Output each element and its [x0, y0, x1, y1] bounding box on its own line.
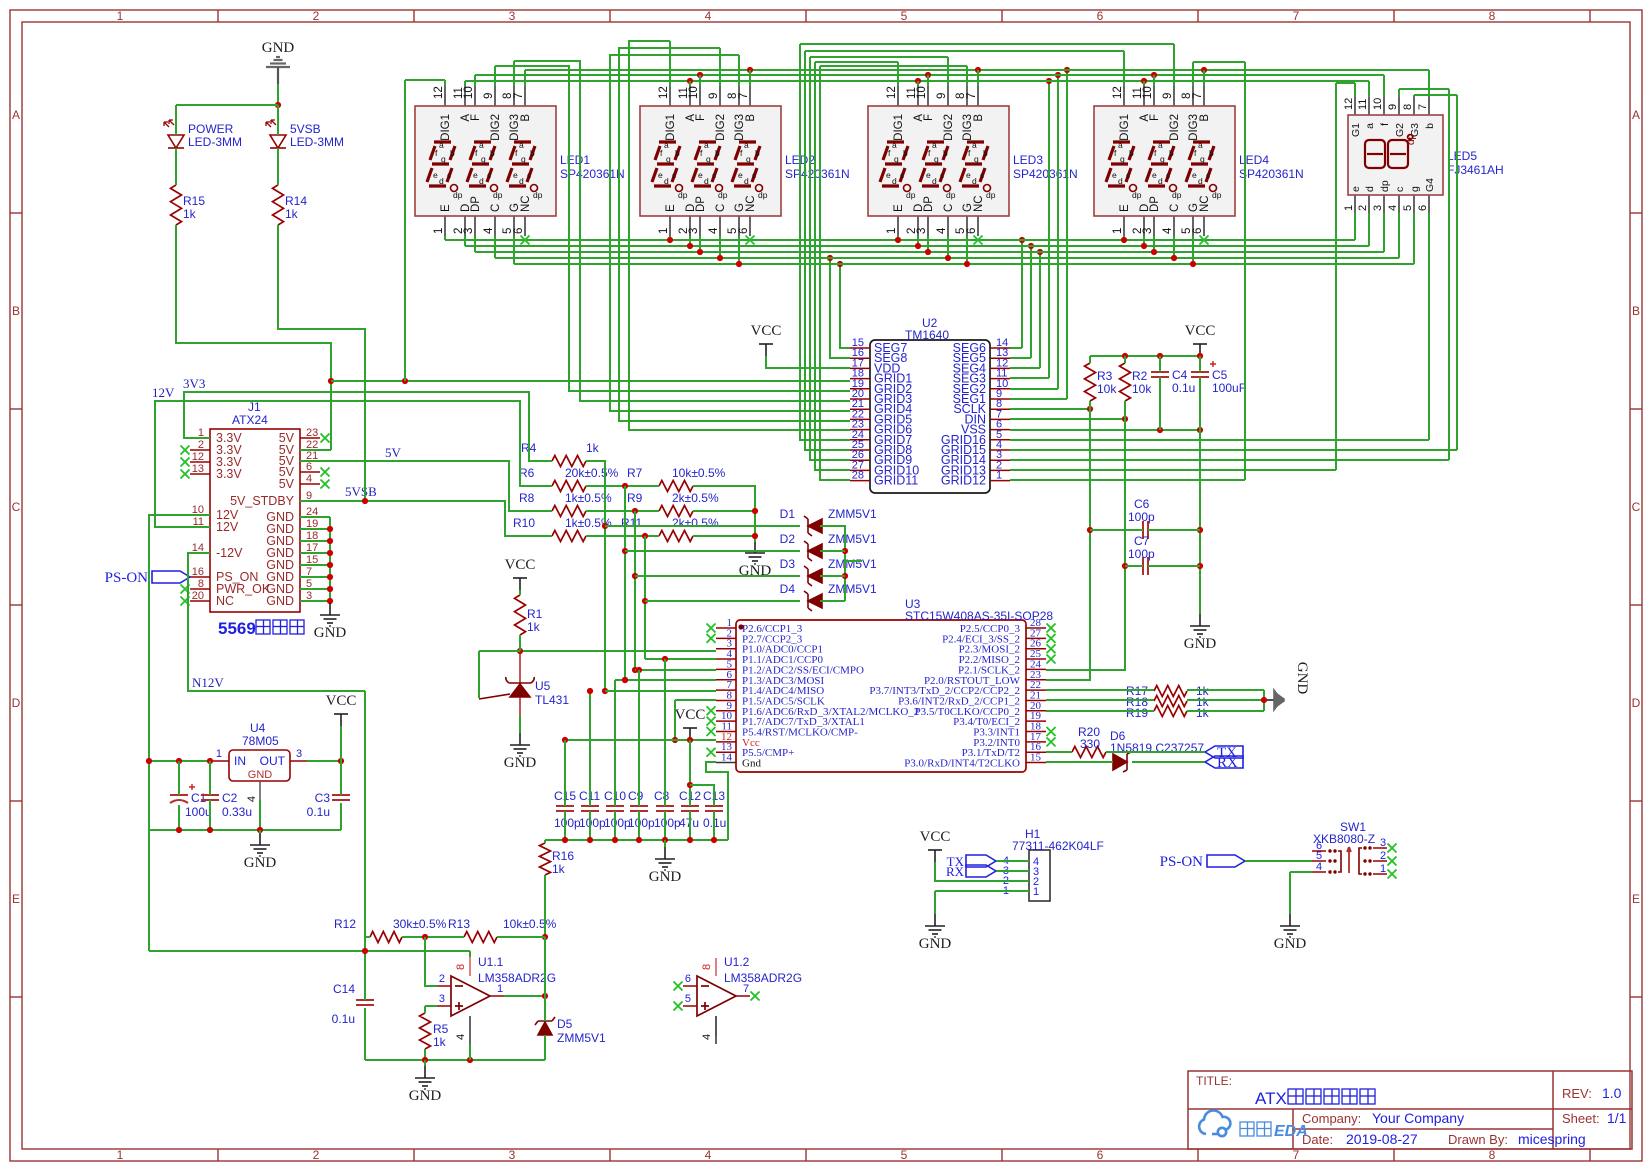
wire P3.6 to R19 — [1046, 710, 1154, 712]
ground below U5 — [510, 733, 530, 756]
junction — [622, 677, 628, 683]
junction — [1197, 527, 1203, 533]
svg-text:9: 9 — [1387, 104, 1399, 110]
svg-text:B: B — [973, 114, 985, 122]
svg-text:4: 4 — [705, 9, 712, 23]
capacitor C12 47u — [681, 806, 699, 811]
wire LED5 G4 drop — [1428, 213, 1430, 440]
wire D3 cathode — [820, 575, 845, 577]
junction — [1055, 72, 1061, 78]
wire display pin drop — [689, 236, 691, 246]
svg-text:F: F — [923, 114, 935, 121]
wire GRID lane to LED4 pin9 — [800, 43, 1174, 45]
J1 pin 11 12V — [190, 526, 210, 528]
wire 5VSB LED to R14 — [277, 148, 279, 185]
svg-text:100p: 100p — [628, 816, 655, 830]
resistor R12 30k — [370, 932, 402, 943]
svg-text:b: b — [1424, 123, 1436, 129]
svg-text:P3.0/RxD/INT4/T2CLKO: P3.0/RxD/INT4/T2CLKO — [904, 758, 1020, 770]
svg-text:R15: R15 — [183, 194, 205, 208]
svg-text:VCC: VCC — [1185, 323, 1216, 339]
U3 no-connect — [1047, 644, 1056, 653]
junction — [632, 667, 638, 673]
wire LED anode rail — [176, 104, 278, 106]
U3 no-connect — [707, 706, 716, 715]
U2 pin 23 GRID6 — [850, 429, 870, 431]
svg-text:1: 1 — [1380, 863, 1386, 875]
junction — [1028, 243, 1034, 249]
wire VSS row — [1010, 429, 1200, 431]
junction — [328, 378, 334, 384]
junction — [642, 598, 648, 604]
svg-text:E: E — [1119, 204, 1131, 212]
svg-text:1: 1 — [216, 748, 222, 760]
svg-text:2: 2 — [1357, 205, 1369, 211]
wire SCLK row — [1010, 408, 1090, 410]
svg-text:VCC: VCC — [751, 323, 782, 339]
U3 pin 13 P5.5/CMP+ — [716, 751, 736, 753]
display LED1 SP420361N — [415, 86, 556, 236]
svg-text:6: 6 — [1417, 205, 1429, 211]
wire C5 bottom — [1199, 377, 1201, 430]
wire display pin drop — [464, 236, 466, 246]
svg-text:TL431: TL431 — [535, 693, 569, 707]
wire LED5 pin8 riser — [1413, 95, 1415, 97]
svg-text:GND: GND — [649, 869, 682, 885]
display LED4 SP420361N — [1094, 86, 1235, 236]
wire LED4 riser — [1143, 81, 1145, 86]
svg-text:1/1: 1/1 — [1607, 1110, 1627, 1126]
wire to POWER LED — [175, 105, 177, 135]
capacitor C2 0.33u — [201, 795, 219, 800]
SW1 pin 3 — [1373, 847, 1387, 849]
svg-text:NC: NC — [520, 195, 532, 212]
svg-text:g: g — [1120, 154, 1125, 164]
junction — [687, 782, 693, 788]
junction — [687, 78, 693, 84]
svg-text:TITLE:: TITLE: — [1196, 1074, 1232, 1088]
svg-text:5V: 5V — [279, 477, 295, 491]
junction — [697, 249, 703, 255]
U2 pin 9 SEG1 — [990, 398, 1010, 400]
svg-text:1: 1 — [1033, 886, 1039, 898]
junction — [207, 758, 213, 764]
wire P3.1 to R20 — [1046, 751, 1072, 753]
wire LED2 riser — [689, 81, 691, 86]
svg-text:a: a — [664, 140, 669, 150]
svg-text:dp: dp — [1172, 190, 1182, 200]
junction — [1121, 237, 1127, 243]
IC U4 78M05 — [229, 750, 290, 781]
svg-text:b: b — [715, 148, 720, 158]
svg-text:2: 2 — [439, 973, 445, 985]
svg-text:G4: G4 — [1424, 178, 1436, 192]
U3 pin 17 P3.2/INT0 — [1026, 741, 1046, 743]
U4 pin 4 GND — [259, 781, 261, 800]
wire VCC rail at R3 R2 — [1090, 355, 1200, 357]
net flag TX at H1 — [966, 855, 996, 867]
svg-text:8: 8 — [1489, 9, 1496, 23]
wire LED4 pin8 riser — [1192, 62, 1194, 86]
wire segment A lane — [465, 80, 1369, 82]
wire D4 cathode — [820, 600, 845, 602]
wire C14 bottom — [364, 1008, 366, 1060]
wire C1 top — [178, 761, 180, 795]
svg-text:12V: 12V — [152, 385, 175, 400]
wire GRID1 row — [331, 380, 850, 382]
wire 3V3 net to R4 — [184, 392, 552, 461]
no-connect — [751, 992, 760, 1001]
wire TX to H1 pin4 — [996, 860, 1029, 862]
svg-text:d: d — [1364, 186, 1376, 192]
U3 pin 4 P1.1/ADC1/CCP0 — [716, 658, 736, 660]
resistor R8 1k — [552, 506, 586, 517]
resistor R19 1k — [1154, 706, 1187, 717]
junction — [622, 677, 628, 683]
junction — [275, 102, 281, 108]
capacitor C14 0.1u — [356, 1000, 374, 1005]
wire non-inverting input — [425, 1005, 437, 1007]
wire SEG3 up — [1048, 81, 1050, 378]
svg-text:GND: GND — [314, 625, 347, 641]
U3 no-connect — [707, 727, 716, 736]
U3 pin 9 P1.6/ADC6/RxD_3/XTAL2/MCLKO_2 — [716, 710, 736, 712]
svg-text:LED5: LED5 — [1447, 149, 1477, 163]
resistor R6 20k — [552, 481, 586, 492]
svg-text:ZMM5V1: ZMM5V1 — [557, 1031, 606, 1045]
svg-text:dp: dp — [678, 190, 688, 200]
wire N12V net — [188, 553, 365, 691]
U2 pin 4 GRID15 — [990, 449, 1010, 451]
svg-text:D3: D3 — [780, 557, 796, 571]
resistor R11 2k — [659, 531, 693, 542]
wire C15 top — [564, 740, 566, 806]
wire op-amp output — [504, 995, 545, 997]
svg-text:VCC: VCC — [920, 829, 951, 845]
wire R2 top — [1124, 356, 1126, 363]
wire D6 to RX — [1132, 761, 1205, 763]
U2 pin 25 GRID8 — [850, 449, 870, 451]
wire GRID3 — [514, 61, 850, 401]
VCC near C5 — [1193, 344, 1207, 356]
U3 pin 25 P2.2/MISO_2 — [1026, 658, 1046, 660]
svg-text:4: 4 — [1316, 861, 1322, 873]
junction — [842, 573, 848, 579]
wire display pin drop — [494, 236, 496, 258]
U3 pin 22 P3.7/INT3/TxD_2/CCP2/CCP2_2 — [1026, 689, 1046, 691]
U3 pin 26 P2.3/MOSI_2 — [1026, 648, 1046, 650]
junction — [1122, 353, 1128, 359]
wire P1.3 row — [615, 679, 716, 681]
wire to D5 — [544, 996, 546, 1021]
J1 no-connect — [181, 597, 190, 606]
svg-text:C7: C7 — [1134, 534, 1150, 548]
junction — [1019, 237, 1025, 243]
svg-text:VCC: VCC — [326, 693, 357, 709]
wire LED2 pin8 riser — [738, 55, 740, 86]
wire SEG8 — [830, 258, 850, 358]
svg-text:U1.2: U1.2 — [724, 955, 750, 969]
wire LED1 DIG1 drop — [404, 80, 406, 381]
J1 pin 18 GND — [300, 540, 320, 542]
svg-text:OUT: OUT — [260, 754, 286, 768]
junction — [1046, 78, 1052, 84]
svg-text:10k: 10k — [1097, 382, 1117, 396]
svg-text:2: 2 — [313, 1148, 320, 1162]
junction — [362, 498, 368, 504]
no-connect — [674, 1002, 683, 1011]
resistor R17 1k — [1154, 686, 1187, 697]
junction — [207, 827, 213, 833]
U2 pin 12 SEG4 — [990, 367, 1010, 369]
junction — [1122, 416, 1128, 422]
wire C7 right — [1148, 565, 1200, 567]
zener diode D3 ZMM5V1 — [804, 566, 822, 586]
net flag PS-ON — [152, 571, 190, 583]
svg-text:dp: dp — [986, 190, 996, 200]
junction — [915, 243, 921, 249]
U2 pin 13 SEG5 — [990, 357, 1010, 359]
junction — [687, 243, 693, 249]
svg-text:b: b — [675, 148, 680, 158]
svg-text:5V: 5V — [385, 445, 402, 460]
svg-text:5: 5 — [685, 993, 691, 1005]
svg-text:12: 12 — [1343, 98, 1355, 110]
display LED3 SP420361N — [868, 86, 1009, 236]
wire stub — [845, 560, 862, 562]
J1 pin 5 GND — [300, 588, 320, 590]
display pin6 no-connect — [746, 236, 755, 245]
U3 pin 23 P2.0/RSTOUT_LOW — [1026, 679, 1046, 681]
LED POWER LED-3MM — [164, 120, 184, 148]
wire to pin8 — [469, 951, 471, 957]
junction — [362, 948, 368, 954]
svg-text:g: g — [666, 154, 671, 164]
wire R17-19 common — [1263, 690, 1265, 711]
svg-text:5: 5 — [901, 9, 908, 23]
wire TL431 ref loop — [478, 651, 480, 698]
svg-text:78M05: 78M05 — [242, 734, 279, 748]
junction — [562, 837, 568, 843]
svg-text:LED1: LED1 — [560, 153, 590, 167]
wire U4 GND pin — [259, 800, 261, 830]
H1 pin 2 — [1012, 880, 1029, 882]
junction — [687, 737, 693, 743]
svg-text:GND: GND — [1274, 936, 1307, 952]
wire GRID7 — [800, 44, 850, 440]
wire N12V down to R12 C14 — [364, 691, 366, 1000]
zener diode D1 ZMM5V1 — [804, 516, 822, 536]
SW1 pin 2 — [1373, 860, 1387, 862]
svg-text:d: d — [932, 176, 937, 186]
wire J1 GND pin — [300, 516, 330, 518]
wire DIN to U3 P2.2 — [1046, 419, 1125, 670]
wire P3.7 to R18 — [1046, 699, 1154, 701]
svg-text:B: B — [1199, 114, 1211, 122]
wire J1 GND pin — [300, 540, 330, 542]
svg-text:1k: 1k — [183, 207, 197, 221]
svg-text:e: e — [513, 170, 518, 180]
U3 pin 24 P2.1/SCLK_2 — [1026, 668, 1046, 670]
junction — [925, 72, 931, 78]
wire SEG3 stub — [1010, 377, 1049, 379]
wire LED5 pin4 drop — [1398, 213, 1400, 258]
LED 5VSB LED-3MM — [266, 120, 286, 148]
svg-text:e: e — [658, 170, 663, 180]
junction — [842, 548, 848, 554]
svg-text:ZMM5V1: ZMM5V1 — [828, 532, 877, 546]
wire LED1 pin10 riser — [474, 75, 476, 86]
wire display pin drop — [474, 236, 476, 252]
wire GRID14 riser — [1448, 89, 1450, 460]
U2 pin 15 SEG7 — [850, 347, 870, 349]
svg-text:b: b — [943, 148, 948, 158]
svg-text:1k: 1k — [433, 1035, 447, 1049]
svg-text:d: d — [704, 176, 709, 186]
svg-text:2: 2 — [313, 9, 320, 23]
U3 pin 28 P2.5/CCP0_3 — [1026, 627, 1046, 629]
wire display pin drop — [738, 236, 740, 264]
J1 pin 20 NC — [190, 600, 210, 602]
wire rail to R16 — [544, 840, 546, 843]
wire C8 top — [664, 659, 666, 806]
wire P1.5 row — [675, 699, 716, 701]
J1 pin 13 3.3V — [190, 473, 210, 475]
wire P1.4 row — [605, 690, 716, 692]
wire display pin drop — [1173, 236, 1175, 258]
svg-text:d: d — [1158, 176, 1163, 186]
wire display pin drop — [947, 236, 949, 258]
wire D2 cathode — [820, 550, 845, 552]
wire U4 ground rail — [149, 829, 341, 831]
capacitor C1 100u — [170, 795, 188, 803]
svg-text:1k: 1k — [527, 620, 541, 634]
wire LED5 pin11 riser — [1368, 81, 1370, 97]
wire LED2 pin12 riser — [669, 41, 671, 86]
wire P1.1 row — [645, 658, 716, 660]
svg-text:E: E — [893, 204, 905, 212]
wire R5 top — [424, 1006, 426, 1013]
svg-text:VCC: VCC — [675, 707, 706, 723]
wire D1-D4 cathode bus — [820, 526, 845, 601]
wire display pin drop — [444, 236, 446, 240]
J1 pin 12 3.3V — [190, 461, 210, 463]
U3 pin 18 P3.3/INT1 — [1026, 731, 1046, 733]
wire LED3 riser — [927, 75, 929, 86]
wire P3.0 to D6 — [1046, 761, 1113, 763]
svg-text:3: 3 — [296, 748, 302, 760]
U3 pin 7 P1.4/ADC4/MISO — [716, 689, 736, 691]
wire lane to LED4 pin8 — [1193, 61, 1245, 63]
wire LED3 riser — [917, 81, 919, 86]
junction — [1141, 78, 1147, 84]
wire display pin drop — [1143, 236, 1145, 246]
IC U5 TL431 — [479, 651, 534, 716]
svg-text:E: E — [12, 892, 20, 906]
wire GRID12 riser — [1244, 62, 1246, 480]
svg-text:1: 1 — [658, 228, 670, 234]
capacitor C5 100uF — [1191, 372, 1209, 377]
U3 pin 15 P3.0/RxD/INT4/T2CLKO — [1026, 762, 1046, 764]
wire D4 anode — [645, 600, 800, 602]
svg-text:12: 12 — [433, 86, 445, 99]
SW1 no-connect — [1388, 844, 1397, 853]
svg-text:b: b — [983, 148, 988, 158]
svg-text:DIG2: DIG2 — [715, 114, 727, 141]
capacitor C8 100p — [656, 806, 674, 811]
svg-text:DP: DP — [470, 196, 482, 212]
svg-text:ZMM5V1: ZMM5V1 — [828, 507, 877, 521]
svg-text:NC: NC — [216, 594, 234, 608]
capacitor C13 0.1u — [705, 806, 723, 811]
svg-text:100u: 100u — [185, 805, 212, 819]
svg-text:5569: 5569 — [218, 619, 256, 638]
J1 pin 21 5V — [300, 460, 320, 462]
svg-text:B: B — [520, 114, 532, 122]
ground at R17-R19 — [1266, 690, 1284, 710]
svg-text:3: 3 — [439, 993, 445, 1005]
svg-text:B: B — [1632, 304, 1640, 318]
wire R12-R13 node — [402, 936, 464, 938]
svg-text:D5: D5 — [557, 1017, 573, 1031]
wire GRID lane to LED3 pin12 — [815, 61, 898, 63]
junction — [636, 667, 642, 673]
junction — [327, 538, 333, 544]
svg-text:8: 8 — [1402, 104, 1414, 110]
svg-text:G1: G1 — [1350, 123, 1362, 137]
op-amp U1.1 LM358ADR2G — [451, 976, 490, 1016]
svg-text:micespring: micespring — [1518, 1131, 1586, 1147]
wire U3 Gnd to cap rail — [706, 762, 728, 840]
SW1 no-connect — [1388, 870, 1397, 879]
wire D2 anode — [625, 550, 800, 552]
svg-text:10: 10 — [463, 86, 475, 99]
U2 pin 16 SEG8 — [850, 357, 870, 359]
junction — [327, 574, 333, 580]
wire N12V to R12 — [365, 936, 370, 938]
svg-text:d: d — [1118, 176, 1123, 186]
svg-text:DIG1: DIG1 — [893, 114, 905, 141]
wire R8-R9 node — [586, 510, 659, 512]
svg-text:GND: GND — [1294, 662, 1310, 695]
svg-text:7: 7 — [966, 93, 978, 99]
U3 pin 1 P2.6/CCP1_3 — [716, 627, 736, 629]
J1 pin 15 GND — [300, 564, 320, 566]
wire GND to LED rail — [277, 84, 279, 105]
U3 no-connect — [707, 748, 716, 757]
wire LED5 pin1 drop — [1354, 213, 1356, 240]
J1 no-connect — [181, 470, 190, 479]
wire op-amp ground rail — [365, 1059, 545, 1061]
wire inverting input — [425, 937, 437, 986]
svg-text:PS-ON: PS-ON — [105, 570, 149, 586]
svg-text:U5: U5 — [535, 679, 551, 693]
svg-text:E: E — [1632, 892, 1640, 906]
wire C13 top — [690, 785, 714, 806]
svg-text:ZMM5V1: ZMM5V1 — [828, 557, 877, 571]
svg-text:R1: R1 — [527, 607, 543, 621]
svg-text:1k: 1k — [1196, 706, 1210, 720]
wire GRID lane to LED3 pin8 — [820, 65, 967, 67]
wire GRID11 — [820, 66, 850, 480]
VCC at H1 — [928, 850, 942, 862]
svg-text:LED-3MM: LED-3MM — [290, 135, 344, 149]
wire LED3 riser — [977, 70, 979, 86]
svg-text:R14: R14 — [285, 194, 307, 208]
resistor R20 330 — [1072, 747, 1106, 758]
svg-text:6: 6 — [966, 228, 978, 234]
J1 no-connect — [181, 458, 190, 467]
